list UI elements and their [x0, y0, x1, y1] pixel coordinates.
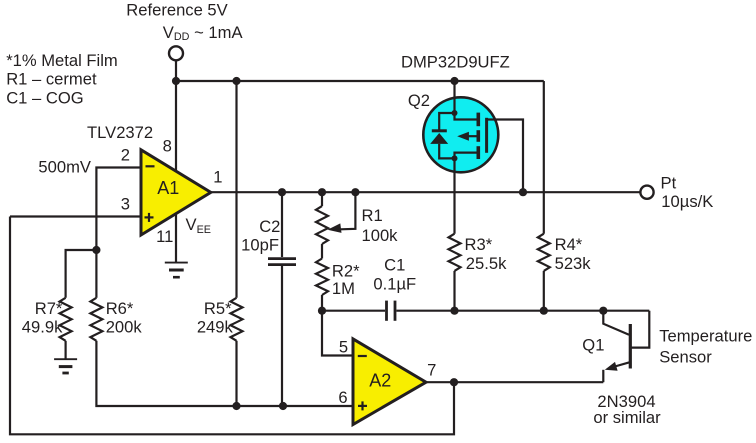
wire R1-R2 link — [321, 244, 323, 259]
wire R3 bottom lead — [453, 271, 455, 311]
wire R2 bottom lead — [321, 295, 323, 311]
svg-text:1M: 1M — [332, 279, 355, 298]
svg-text:100k: 100k — [362, 226, 399, 245]
transistor Q2 body circle — [423, 97, 498, 172]
node junction VDD-R5 — [232, 77, 240, 85]
capacitor C2 top lead — [281, 192, 283, 257]
op-amp A1 body — [141, 150, 211, 235]
svg-text:523k: 523k — [555, 254, 592, 273]
transistor Q1 base bar — [629, 324, 632, 369]
wire pin 11 to ground — [175, 214, 177, 263]
capacitor C2 bottom lead — [281, 266, 283, 406]
wire R5 bottom lead — [235, 341, 237, 406]
svg-text:5: 5 — [339, 337, 348, 356]
svg-text:249k: 249k — [197, 318, 234, 337]
resistor R2 — [316, 259, 328, 296]
Q2 drain contact bar — [476, 146, 480, 159]
arrowhead R1 wiper — [328, 223, 342, 233]
svg-text:or similar: or similar — [593, 408, 661, 427]
terminal VDD (Reference 5V input) — [169, 46, 183, 60]
svg-text:25.5k: 25.5k — [466, 254, 507, 273]
wire A1 output (pin 1) line to Pt terminal — [211, 191, 641, 193]
op-amp A2 body — [353, 339, 426, 425]
wire Q1 base from mid rail — [603, 311, 629, 335]
node junction A2 output-feedback — [450, 378, 458, 386]
svg-text:3: 3 — [121, 195, 130, 214]
capacitor C2 plates — [268, 259, 296, 265]
node junction pin2-R6-R7 — [92, 246, 100, 254]
svg-text:Q2: Q2 — [408, 91, 430, 110]
wire R1 wiper — [341, 192, 356, 229]
svg-text:Sensor: Sensor — [659, 348, 712, 367]
wire pin 3 input — [10, 215, 141, 217]
Q2 body diode cathode bar — [432, 129, 447, 132]
svg-text:R4*: R4* — [555, 235, 583, 254]
resistor R6 — [90, 298, 102, 341]
node junction C2-pin6 rail — [279, 402, 287, 410]
svg-text:R7*: R7* — [35, 299, 63, 318]
wire R7 to ground — [64, 341, 66, 359]
wire Q2 gate lead — [487, 120, 523, 193]
node junction R2-C1-pin5 — [318, 307, 326, 315]
svg-text:11: 11 — [156, 227, 173, 246]
Q2 body arrow line — [466, 135, 477, 137]
wire Q2 drain to R3 — [453, 158, 455, 233]
node junction output-Q2 gate — [519, 188, 527, 196]
svg-text:7: 7 — [427, 361, 436, 380]
wire VDD rail corner to R4 — [543, 81, 545, 234]
Q2 body diode triangle — [430, 133, 448, 144]
Q2 source contact bar — [476, 113, 480, 127]
wire Q1 collector loop — [632, 311, 650, 348]
Q2 body diode loop top — [439, 113, 454, 130]
wire pin 2 input from 500mV node — [96, 168, 141, 251]
wire A2 output (pin 7) — [426, 381, 603, 383]
svg-text:Pt: Pt — [661, 174, 677, 193]
node junction Q1 base-mid rail — [599, 307, 607, 315]
ground R7 — [54, 359, 77, 373]
wire mid rail left of C1 — [322, 310, 385, 312]
svg-text:C2: C2 — [259, 217, 280, 236]
arrowhead Q1 emitter — [605, 362, 618, 371]
node Q2 drain terminal — [452, 155, 458, 161]
arrowhead Q2 body (points left) — [457, 132, 469, 141]
node junction R3-mid rail — [450, 307, 458, 315]
wire pin3 feedback loop left+bottom — [10, 217, 454, 435]
resistor R5 — [231, 298, 243, 341]
wire Q1 emitter to A2 output — [602, 370, 604, 382]
node junction VDD-Q2 source — [450, 77, 458, 85]
node junction VDD-pin8 — [172, 77, 180, 85]
Q2 body contact bar — [476, 130, 480, 142]
wire R4 bottom lead — [543, 271, 545, 311]
svg-text:49.9k: 49.9k — [22, 318, 63, 337]
svg-text:TLV2372: TLV2372 — [87, 123, 153, 142]
svg-text:*1% Metal Film: *1% Metal Film — [6, 51, 118, 70]
svg-text:500mV: 500mV — [38, 158, 91, 177]
wire R6 top lead — [95, 250, 97, 298]
svg-text:200k: 200k — [106, 318, 143, 337]
wire R1 top lead — [321, 192, 323, 206]
svg-text:A2: A2 — [369, 371, 391, 391]
wire Q2 source contact — [455, 113, 478, 120]
resistor R4 — [538, 234, 550, 271]
svg-text:R1 – cermet: R1 – cermet — [6, 70, 97, 89]
capacitor C1 plates — [387, 301, 396, 321]
wire VDD terminal to rail — [175, 61, 177, 81]
svg-text:DMP32D9UFZ: DMP32D9UFZ — [401, 53, 510, 72]
svg-text:Temperature: Temperature — [659, 327, 752, 346]
wire Q1 emitter diagonal — [613, 362, 630, 367]
svg-text:R2*: R2* — [332, 261, 360, 280]
svg-text:C1 – COG: C1 – COG — [6, 88, 83, 107]
svg-text:Reference 5V: Reference 5V — [126, 0, 227, 19]
svg-text:10µs/K: 10µs/K — [661, 192, 713, 211]
Q2 body diode loop bottom — [439, 144, 454, 159]
wire VDD rail — [176, 80, 544, 82]
wire pin 8 supply — [175, 81, 177, 172]
svg-text:A1: A1 — [157, 178, 179, 198]
wire pin5 branch — [322, 311, 353, 356]
wire mid rail right of C1 — [397, 310, 650, 312]
svg-text:2: 2 — [121, 146, 130, 165]
wire Q2 drain contact — [455, 153, 478, 159]
resistor R1 (potentiometer) — [316, 206, 328, 244]
op-amp A1 plus sign (pin 3 non-inverting) — [145, 213, 154, 222]
wire R6/R7 tee — [66, 250, 97, 298]
op-amp A2 minus sign (pin 5) — [358, 355, 367, 357]
wire R5 top lead from VDD rail — [235, 81, 237, 298]
node junction R4-mid rail — [540, 307, 548, 315]
svg-text:10pF: 10pF — [241, 236, 279, 255]
svg-text:R6*: R6* — [106, 299, 134, 318]
svg-text:R5*: R5* — [204, 299, 232, 318]
svg-text:6: 6 — [338, 388, 347, 407]
terminal Pt output — [640, 186, 653, 199]
Q2 gate bar — [485, 118, 488, 153]
node junction output-R1 wiper — [351, 188, 359, 196]
svg-text:0.1µF: 0.1µF — [373, 274, 416, 293]
op-amp A2 plus sign (pin 6) — [358, 401, 367, 410]
node junction R5-pin6 rail — [232, 402, 240, 410]
svg-text:1: 1 — [213, 167, 222, 186]
svg-text:R1: R1 — [362, 206, 383, 225]
wire Q2 source from VDD rail — [453, 81, 455, 113]
svg-text:Q1: Q1 — [582, 335, 604, 354]
node Q2 source terminal — [452, 110, 458, 116]
svg-text:C1: C1 — [384, 256, 405, 275]
resistor R7 — [60, 298, 72, 341]
svg-text:8: 8 — [163, 137, 172, 156]
node junction output-C2 — [278, 188, 286, 196]
resistor R3 — [449, 234, 461, 271]
svg-text:R3*: R3* — [465, 235, 493, 254]
op-amp A1 minus sign (pin 2 inverting) — [146, 165, 155, 167]
ground A1 (VEE) — [165, 263, 188, 278]
node junction output-R1 top — [318, 188, 326, 196]
wire R6 bottom to A2 pin 6 rail — [96, 341, 353, 406]
